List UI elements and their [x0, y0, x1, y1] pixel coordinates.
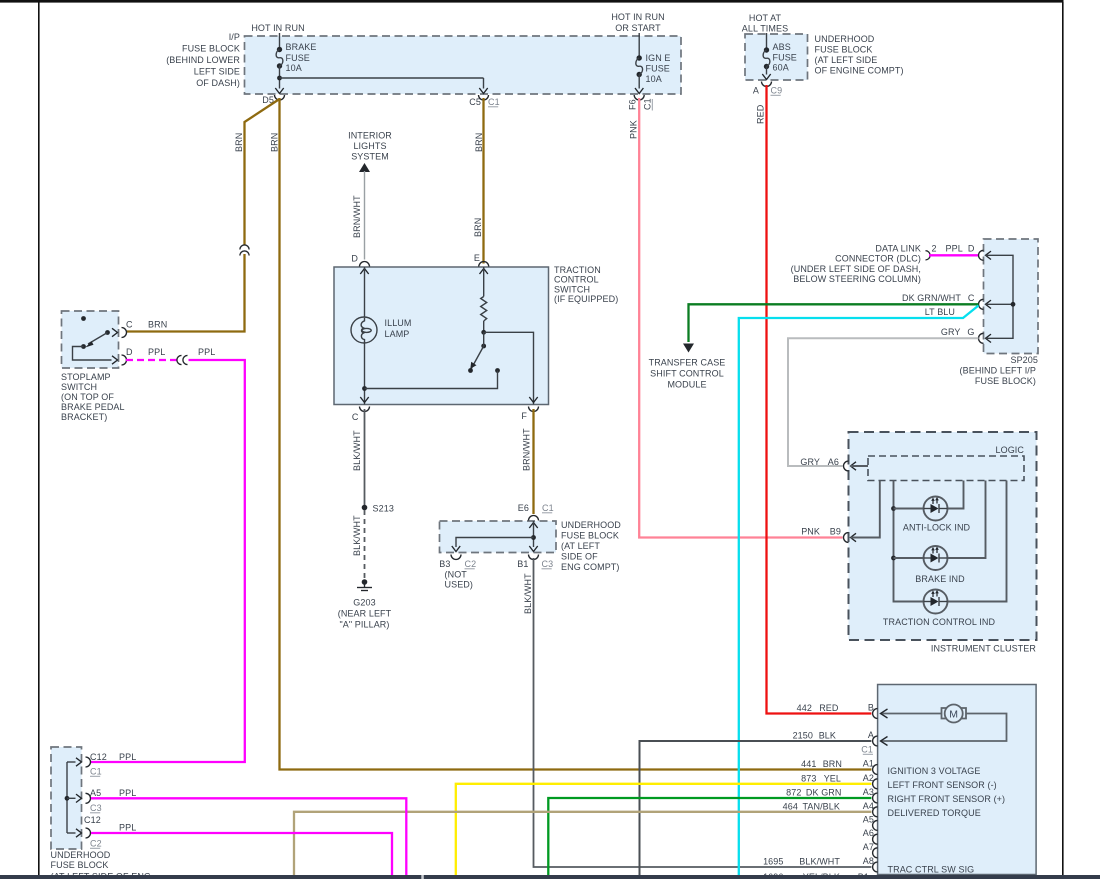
label underhood fuse block middle — [561, 520, 621, 572]
motor M — [881, 705, 967, 723]
label TRACTION CONTROL IND — [883, 617, 996, 627]
svg-text:M: M — [949, 708, 958, 720]
label BLK/WHT (B1 line) — [523, 573, 533, 614]
svg-text:LT BLU: LT BLU — [925, 307, 955, 317]
svg-text:ABS: ABS — [773, 42, 791, 52]
svg-text:SWITCH: SWITCH — [554, 284, 590, 294]
wire PPL from DLC to SP205 D — [929, 254, 979, 256]
svg-text:HOT IN RUN: HOT IN RUN — [611, 12, 664, 22]
anti-lock indicator lamp — [894, 481, 964, 521]
label LT BLU — [925, 307, 955, 317]
stoplamp switch box — [62, 311, 119, 368]
wire BRN/WHT from F to E6 — [532, 409, 534, 514]
svg-text:TRACTION CONTROL IND: TRACTION CONTROL IND — [883, 617, 996, 627]
pin 2 of DLC — [926, 244, 937, 260]
svg-text:OF DASH): OF DASH) — [196, 78, 240, 88]
svg-text:USED): USED) — [445, 580, 474, 590]
pin B of EBCM — [868, 703, 878, 719]
splice S213 — [362, 504, 394, 514]
inline connector on PPL — [177, 355, 188, 364]
pin E entry — [474, 253, 489, 274]
traction control switch box — [334, 267, 549, 405]
wire ign fuse feed — [638, 33, 640, 58]
svg-text:GRY: GRY — [800, 457, 820, 467]
wire LT BLU — [739, 306, 979, 876]
svg-text:I/P: I/P — [229, 32, 240, 42]
svg-text:464: 464 — [783, 801, 798, 811]
svg-text:C: C — [126, 320, 133, 330]
svg-text:E6: E6 — [518, 503, 529, 513]
svg-text:F6: F6 — [628, 99, 638, 110]
svg-text:ANTI-LOCK IND: ANTI-LOCK IND — [903, 523, 971, 533]
svg-text:(NEAR LEFT: (NEAR LEFT — [338, 609, 392, 619]
svg-text:BRAKE PEDAL: BRAKE PEDAL — [61, 402, 125, 412]
svg-text:FUSE: FUSE — [286, 53, 310, 63]
wire abs fuse feed — [766, 33, 768, 50]
svg-text:PPL: PPL — [119, 823, 136, 833]
label BRN (C5 line upper) — [474, 133, 484, 152]
label DK GRN/WHT — [902, 293, 961, 303]
label PPL pin2 — [119, 788, 136, 798]
svg-text:BRN: BRN — [823, 759, 842, 769]
underhood fuse block (bottom left) box — [51, 747, 82, 849]
svg-text:PPL: PPL — [946, 244, 963, 254]
switch junction and branch to F — [481, 330, 533, 405]
pin D of stoplamp switch — [112, 347, 133, 365]
label IGNITION 3 VOLTAGE — [888, 766, 981, 776]
label PPL (solid side) — [198, 347, 215, 357]
svg-text:CONTROL: CONTROL — [554, 275, 599, 285]
label HOT IN RUN — [251, 23, 304, 33]
label BRN at stoplamp C — [148, 320, 167, 330]
EBCM box — [878, 685, 1037, 875]
underhood fuse block box (ABS) — [745, 34, 808, 80]
svg-text:PNK: PNK — [801, 527, 820, 537]
pin B1 exit — [517, 546, 553, 569]
svg-text:SHIFT CONTROL: SHIFT CONTROL — [650, 369, 724, 379]
label LEFT FRONT SENSOR (-) — [888, 780, 997, 790]
svg-text:FUSE: FUSE — [646, 64, 670, 74]
svg-text:A8: A8 — [863, 856, 874, 866]
label INSTRUMENT CLUSTER — [931, 644, 1037, 654]
svg-text:C: C — [968, 293, 975, 303]
svg-text:YEL: YEL — [824, 773, 841, 783]
ground G203 — [357, 579, 372, 590]
label NOT USED — [445, 570, 474, 590]
label PPL (DLC) — [946, 244, 963, 254]
wire PPL C2 pin — [91, 833, 392, 875]
internal wire E6 to B1 B3 — [456, 521, 536, 547]
wire fuse to F6 — [638, 75, 640, 89]
switch arm arrowhead — [470, 362, 476, 369]
svg-text:BLK/WHT: BLK/WHT — [352, 430, 362, 471]
label BLK/WHT (above S213) — [352, 430, 362, 471]
svg-text:OR START: OR START — [615, 23, 661, 33]
wire PPL dashed from stoplamp D — [126, 359, 177, 361]
svg-text:BRN/WHT: BRN/WHT — [522, 428, 532, 471]
wire BRN/WHT to interior lights — [364, 171, 366, 260]
pin C exit — [352, 397, 370, 422]
svg-text:B9: B9 — [830, 527, 841, 537]
wire BLK/WHT from C to S213 — [364, 409, 366, 505]
arrow at pin A — [881, 737, 888, 746]
logic box — [868, 456, 1024, 481]
svg-text:BRACKET): BRACKET) — [61, 412, 107, 422]
label GRY (SP205) — [941, 327, 961, 337]
label STOPLAMP SWITCH — [61, 372, 125, 422]
svg-text:RED: RED — [756, 104, 766, 124]
svg-text:B3: B3 — [439, 559, 450, 569]
svg-text:C1: C1 — [488, 97, 500, 107]
pin A4 of EBCM — [863, 801, 878, 817]
lamp ILLUM LAMP — [351, 317, 377, 343]
svg-text:FUSE BLOCK: FUSE BLOCK — [815, 45, 873, 55]
svg-text:C3: C3 — [90, 803, 102, 813]
pin A exit — [753, 74, 782, 96]
svg-text:C12: C12 — [84, 815, 101, 825]
wire 873 YEL — [456, 784, 872, 875]
label BRN/WHT (F line) — [522, 428, 532, 471]
bottom window bar — [0, 875, 1100, 879]
pin C12 (C2) — [76, 828, 102, 849]
svg-text:BELOW STEERING COLUMN): BELOW STEERING COLUMN) — [793, 274, 921, 284]
svg-text:442: 442 — [797, 703, 812, 713]
svg-text:C12: C12 — [90, 752, 107, 762]
pin A6 of cluster — [800, 457, 868, 471]
svg-text:OF ENGINE COMPT): OF ENGINE COMPT) — [815, 66, 904, 76]
wire GRY from SP205 G to cluster A6 — [788, 338, 979, 466]
pin D5 exit — [262, 88, 284, 105]
label ILLUM LAMP — [385, 318, 412, 339]
label BRN (main) — [270, 133, 280, 152]
svg-text:"A" PILLAR): "A" PILLAR) — [339, 620, 389, 630]
svg-text:LEFT SIDE: LEFT SIDE — [194, 67, 240, 77]
svg-text:SIDE OF: SIDE OF — [561, 552, 598, 562]
svg-text:DK GRN/WHT: DK GRN/WHT — [902, 293, 961, 303]
label 1696 YEL/BLK (partial) — [763, 872, 840, 879]
pin B9 of cluster — [801, 527, 856, 543]
svg-text:BLK/WHT: BLK/WHT — [799, 857, 840, 867]
resistor in traction switch — [481, 267, 487, 332]
label BLK/WHT (below S213) — [352, 515, 362, 556]
label underhood fuse block engine compt — [815, 34, 904, 76]
wire BRN from D5 to A1 of EBCM — [280, 98, 872, 770]
wire PPL from connector to underhood fuse block C12 — [91, 360, 245, 762]
stoplamp switch contacts — [73, 316, 112, 360]
label 442 RED — [797, 703, 839, 713]
svg-text:D: D — [968, 244, 975, 254]
svg-text:DATA LINK: DATA LINK — [875, 244, 921, 254]
svg-text:INSTRUMENT CLUSTER: INSTRUMENT CLUSTER — [931, 644, 1037, 654]
svg-text:C5: C5 — [469, 97, 481, 107]
svg-text:PPL: PPL — [119, 752, 136, 762]
label 873 YEL — [801, 773, 841, 783]
svg-text:PPL: PPL — [198, 347, 215, 357]
pin C of SP205 — [968, 293, 991, 309]
svg-text:CONNECTOR (DLC): CONNECTOR (DLC) — [835, 254, 921, 264]
switch fixed contact to lamp line — [365, 368, 500, 388]
pin G of SP205 — [967, 327, 991, 343]
pin A7 of EBCM — [863, 842, 878, 858]
label ANTI-LOCK IND — [903, 523, 971, 533]
svg-text:B1: B1 — [517, 559, 528, 569]
pin F exit — [521, 397, 538, 421]
pin D entry — [351, 254, 369, 275]
frame right border — [1062, 2, 1064, 875]
svg-text:2: 2 — [932, 244, 937, 254]
label PNK — [629, 120, 639, 139]
svg-text:S213: S213 — [373, 504, 394, 514]
svg-text:BRN: BRN — [473, 218, 483, 237]
wire 464 TAN/BLK — [294, 812, 871, 875]
label 441 BRN — [801, 759, 842, 769]
svg-text:DELIVERED TORQUE: DELIVERED TORQUE — [888, 808, 981, 818]
wire BRN from C5 to traction switch E — [482, 98, 484, 264]
svg-text:UNDERHOOD: UNDERHOOD — [51, 850, 111, 860]
svg-text:C: C — [352, 412, 359, 422]
svg-text:F: F — [521, 411, 527, 421]
svg-text:10A: 10A — [286, 63, 302, 73]
pin A1 of EBCM — [863, 759, 878, 775]
label LOGIC — [995, 445, 1024, 455]
svg-text:RED: RED — [819, 703, 839, 713]
stoplamp switch arm arrowhead — [85, 341, 93, 347]
svg-text:441: 441 — [801, 759, 816, 769]
svg-text:GRY: GRY — [941, 327, 961, 337]
wire 2150 BLK — [640, 741, 872, 875]
pin A5 of EBCM — [863, 814, 878, 830]
svg-text:2150: 2150 — [793, 731, 813, 741]
frame top border — [0, 0, 1064, 3]
svg-text:PPL: PPL — [119, 788, 136, 798]
svg-text:873: 873 — [801, 773, 816, 783]
pin B1 of EBCM (partial) — [858, 872, 869, 879]
SP205 internal bracket — [986, 255, 1016, 338]
label 464 TAN/BLK — [783, 801, 840, 811]
arrow at pin B — [881, 709, 888, 718]
svg-text:LOGIC: LOGIC — [995, 445, 1024, 455]
wire DK GRN/WHT to transfer case module — [689, 304, 979, 342]
underhood fuse block (middle) box — [440, 521, 557, 553]
SP205 box — [984, 239, 1039, 354]
fuse ABS FUSE 60A — [763, 42, 797, 73]
label TRACTION CONTROL SWITCH — [554, 265, 618, 304]
brake indicator lamp — [894, 481, 986, 571]
svg-text:SWITCH: SWITCH — [61, 382, 97, 392]
svg-text:B: B — [868, 703, 874, 713]
svg-text:BRAKE IND: BRAKE IND — [915, 574, 965, 584]
svg-text:ALL TIMES: ALL TIMES — [742, 24, 788, 34]
svg-text:D: D — [351, 254, 358, 264]
svg-text:FUSE: FUSE — [773, 53, 797, 63]
svg-text:TRAC CTRL SW SIG: TRAC CTRL SW SIG — [888, 865, 975, 875]
label DATA LINK CONNECTOR (DLC) — [791, 244, 921, 285]
svg-text:C3: C3 — [542, 559, 554, 569]
svg-text:DK GRN: DK GRN — [806, 788, 842, 798]
connector label C1 of EBCM — [861, 745, 873, 755]
svg-text:BRAKE: BRAKE — [286, 42, 317, 52]
svg-text:PNK: PNK — [629, 120, 639, 139]
svg-text:C1: C1 — [90, 767, 102, 777]
svg-text:(IF EQUIPPED): (IF EQUIPPED) — [554, 294, 618, 304]
instrument cluster box — [849, 432, 1037, 640]
cluster indicator feed wire — [891, 481, 923, 602]
pin A of EBCM — [868, 730, 878, 746]
wire fuse to A — [766, 67, 768, 75]
svg-text:872: 872 — [786, 788, 801, 798]
svg-text:IGN E: IGN E — [646, 53, 671, 63]
svg-text:C2: C2 — [465, 559, 477, 569]
label BRN (C5 line lower) — [473, 218, 483, 237]
I/P fuse block box — [245, 36, 682, 94]
label 2150 BLK — [793, 731, 836, 741]
wire RED from ABS fuse to EBCM B — [767, 85, 872, 714]
pin B3 exit — [439, 546, 476, 569]
svg-text:A6: A6 — [863, 828, 874, 838]
svg-text:(NOT: (NOT — [445, 570, 468, 580]
pin A5 (C3) — [76, 788, 102, 813]
svg-text:FUSE BLOCK: FUSE BLOCK — [561, 531, 619, 541]
svg-text:FUSE BLOCK: FUSE BLOCK — [182, 44, 240, 54]
svg-text:(AT LEFT SIDE: (AT LEFT SIDE — [815, 55, 878, 65]
switch arm — [468, 332, 486, 373]
svg-text:A7: A7 — [863, 842, 874, 852]
svg-text:BRN: BRN — [270, 133, 280, 152]
svg-text:BRN: BRN — [234, 133, 244, 152]
label BRAKE IND — [915, 574, 965, 584]
traction control indicator lamp — [924, 481, 1007, 614]
pin F6 exit — [628, 88, 645, 110]
svg-text:E: E — [474, 253, 480, 263]
pin C of stoplamp switch — [112, 320, 133, 338]
pin E6 entry — [518, 503, 554, 528]
label RIGHT FRONT SENSOR (+) — [888, 794, 1006, 804]
wire 872 DK GRN — [548, 798, 871, 875]
svg-text:LEFT FRONT SENSOR (-): LEFT FRONT SENSOR (-) — [888, 780, 997, 790]
svg-text:BRN: BRN — [148, 320, 167, 330]
svg-text:TRANSFER CASE: TRANSFER CASE — [649, 358, 726, 368]
svg-text:UNDERHOOD: UNDERHOOD — [561, 520, 621, 530]
svg-text:(AT LEFT: (AT LEFT — [561, 541, 600, 551]
svg-text:SYSTEM: SYSTEM — [351, 152, 389, 162]
svg-text:A3: A3 — [863, 787, 874, 797]
label PPL pin3 — [119, 823, 136, 833]
wire B9 to logic — [851, 481, 880, 538]
svg-text:BLK/WHT: BLK/WHT — [523, 573, 533, 614]
svg-text:(UNDER LEFT SIDE OF DASH,: (UNDER LEFT SIDE OF DASH, — [791, 264, 921, 274]
label I/P fuse block — [166, 32, 240, 88]
svg-text:IGNITION 3 VOLTAGE: IGNITION 3 VOLTAGE — [888, 766, 981, 776]
wire BLK/WHT from B1 to EBCM A8 — [534, 558, 872, 867]
wire BRN branch to stoplamp — [126, 99, 280, 332]
svg-text:FUSE BLOCK: FUSE BLOCK — [51, 860, 109, 870]
svg-text:A: A — [868, 730, 874, 740]
svg-text:A: A — [753, 86, 759, 96]
svg-text:D: D — [126, 347, 133, 357]
svg-text:10A: 10A — [646, 74, 662, 84]
svg-text:G: G — [967, 327, 974, 337]
label 1695 BLK/WHT — [763, 857, 840, 867]
svg-text:TRACTION: TRACTION — [554, 265, 601, 275]
svg-text:ILLUM: ILLUM — [385, 318, 412, 328]
arrow to transfer case shift control module — [683, 344, 694, 353]
svg-text:FUSE BLOCK): FUSE BLOCK) — [975, 376, 1036, 386]
svg-text:HOT IN RUN: HOT IN RUN — [251, 23, 304, 33]
pin A6 of EBCM — [863, 828, 878, 844]
svg-text:LIGHTS: LIGHTS — [353, 141, 386, 151]
label C12 second — [84, 815, 101, 825]
svg-text:PPL: PPL — [148, 347, 165, 357]
svg-text:HOT AT: HOT AT — [749, 13, 782, 23]
svg-text:(ON TOP OF: (ON TOP OF — [61, 392, 114, 402]
svg-text:A1: A1 — [863, 759, 874, 769]
wire PPL A5 pin — [91, 798, 406, 875]
svg-text:RIGHT FRONT SENSOR (+): RIGHT FRONT SENSOR (+) — [888, 794, 1006, 804]
svg-text:C1: C1 — [861, 745, 873, 755]
pin D of SP205 — [968, 244, 991, 261]
svg-text:1695: 1695 — [763, 857, 783, 867]
svg-text:A2: A2 — [863, 773, 874, 783]
frame left border — [38, 2, 40, 875]
svg-text:ENG COMPT): ENG COMPT) — [561, 562, 620, 572]
label DELIVERED TORQUE — [888, 808, 981, 818]
svg-text:TAN/BLK: TAN/BLK — [802, 801, 840, 811]
svg-text:C1: C1 — [643, 98, 653, 110]
svg-text:BRN: BRN — [474, 133, 484, 152]
svg-text:A5: A5 — [863, 814, 874, 824]
svg-text:C1: C1 — [542, 503, 554, 513]
illum lamp branch wire — [362, 267, 367, 405]
svg-text:C9: C9 — [771, 86, 783, 96]
fuse BRAKE FUSE 10A — [276, 42, 316, 73]
svg-text:G203: G203 — [353, 598, 375, 608]
svg-text:BLK: BLK — [819, 731, 836, 741]
pin C5 exit — [469, 88, 499, 107]
label HOT IN RUN OR START — [611, 12, 664, 33]
label TRAC CTRL SW SIG — [888, 865, 975, 875]
label BRN/WHT (interior lights) — [352, 195, 362, 238]
svg-text:UNDERHOOD: UNDERHOOD — [815, 34, 875, 44]
label PPL (dashed side) — [148, 347, 165, 357]
fuse block internal bracket — [65, 762, 76, 833]
svg-text:BLK/WHT: BLK/WHT — [352, 515, 362, 556]
wire fuse to D5 and C5 — [277, 66, 483, 89]
label G203 — [338, 598, 392, 630]
svg-text:(BEHIND LEFT I/P: (BEHIND LEFT I/P — [960, 366, 1036, 376]
label HOT AT ALL TIMES — [742, 13, 788, 34]
svg-text:STOPLAMP: STOPLAMP — [61, 372, 111, 382]
motor return loop — [881, 714, 1007, 742]
wire BLK/WHT dashed to ground — [364, 510, 366, 579]
wire brake fuse feed — [279, 33, 281, 49]
pin A8 of EBCM — [863, 856, 878, 872]
connector label C1 at F6 — [643, 98, 653, 110]
svg-text:INTERIOR: INTERIOR — [348, 131, 392, 141]
label underhood fuse block bottom left — [51, 850, 152, 879]
label INTERIOR LIGHTS SYSTEM — [348, 131, 392, 162]
label TRANSFER CASE SHIFT CONTROL MODULE — [649, 358, 726, 390]
inline connector on BRN branch — [240, 245, 249, 256]
pin A2 of EBCM — [863, 773, 878, 789]
arrow to interior lights system — [359, 163, 370, 172]
pin A3 of EBCM — [863, 787, 878, 803]
svg-text:BRN/WHT: BRN/WHT — [352, 195, 362, 238]
label BRN (left branch) — [234, 133, 244, 152]
label RED — [756, 104, 766, 124]
svg-text:A5: A5 — [90, 788, 101, 798]
svg-text:SP205: SP205 — [1010, 355, 1038, 365]
svg-text:60A: 60A — [773, 63, 789, 73]
